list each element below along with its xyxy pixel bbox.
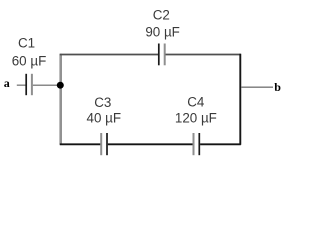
- capacitor C1: [26, 74, 32, 95]
- wire bottom between C3 and C4: [108, 143, 193, 145]
- wire top from C2 right plate to right corner: [166, 54, 241, 56]
- capacitor C4: [194, 133, 200, 155]
- svg-text:a: a: [4, 76, 10, 90]
- wire from C1 right plate to node: [33, 84, 59, 86]
- wire top from left corner to C2 left plate: [60, 54, 158, 56]
- wire bottom from C4 right plate to right corner: [200, 143, 241, 145]
- node junction dot: [57, 82, 64, 89]
- wire left vertical: [59, 54, 62, 145]
- svg-text:b: b: [274, 80, 281, 94]
- wire right vertical: [239, 54, 241, 145]
- wire from terminal a to C1 left plate: [17, 84, 26, 86]
- svg-text:60 µF: 60 µF: [12, 54, 47, 69]
- svg-text:C1: C1: [18, 36, 35, 51]
- svg-text:90 µF: 90 µF: [145, 25, 180, 40]
- svg-text:C3: C3: [94, 95, 111, 110]
- svg-text:40 µF: 40 µF: [87, 111, 122, 126]
- capacitor C3: [101, 133, 107, 155]
- svg-text:C2: C2: [153, 8, 170, 23]
- svg-text:120 µF: 120 µF: [175, 111, 217, 126]
- wire bottom from left corner to C3 left plate: [60, 143, 101, 145]
- svg-text:C4: C4: [187, 95, 205, 110]
- wire from right vertical to terminal b: [241, 86, 273, 88]
- capacitor C2: [159, 44, 165, 66]
